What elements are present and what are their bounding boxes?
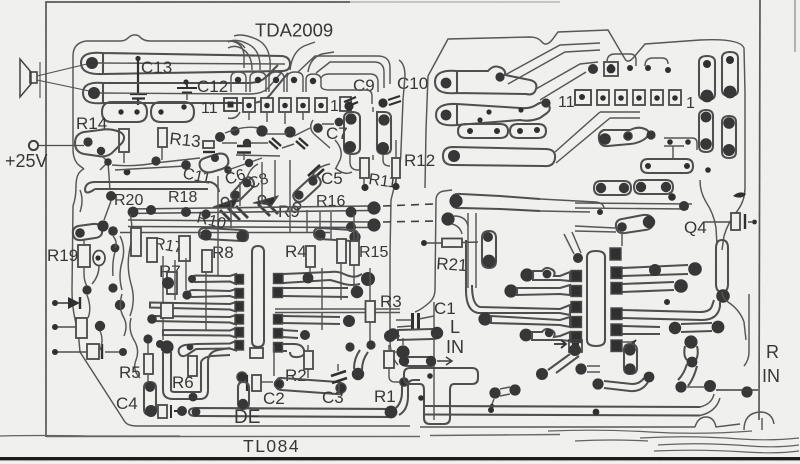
mid elbow stadium right [599,128,656,146]
capacitor C3 diagonal bars [331,371,347,383]
border frame right [759,0,760,420]
stadium left cluster [73,220,109,240]
resistor R14 body [119,129,129,152]
wire through cap bars [222,143,280,160]
pad under R3 [366,340,375,349]
dark pad cluster center 3 [284,126,295,137]
fan lines to C9 [298,56,345,73]
elbow stadium bottom [616,215,655,233]
pads pair lower right [669,321,725,335]
pad right low [384,330,396,342]
bottom black bar [0,457,800,460]
arrow shape 2 [253,196,278,205]
right pin squares row [597,90,681,105]
resistor R13 body [158,128,167,147]
finger L5 [520,329,582,343]
vertical stems to bus [218,160,320,232]
R3 wires [322,268,370,341]
stadium pads pair lower [458,124,508,138]
vertical stadium C10 comp [377,112,391,154]
pin square right of 1 [340,97,351,111]
C1 leads [396,316,434,327]
mid-left pads [82,285,91,294]
pin1 arrow right IC [554,340,566,348]
R21 resistor [421,239,478,248]
speaker LS [20,59,40,98]
pin square boxed right [575,90,591,105]
small cap symbol under R13 [203,141,215,152]
IC bar top pad [573,253,583,263]
pad right of cluster [245,159,253,167]
trace bus up to R1 [396,380,420,415]
vertical stadium R21 right [482,231,496,268]
slash hatch 2 [258,202,278,216]
dark pad cluster center [215,132,225,142]
pad left of R6 [160,340,173,353]
wire C7 down [335,140,341,168]
diode D row [52,297,80,309]
right board right edge lower [722,292,749,366]
resistor R3 body [366,301,376,322]
junction pad [104,158,112,166]
wires C6 C8 up [247,164,352,178]
right board outline [425,30,700,188]
hatch rings [221,197,228,204]
ring pad right [400,378,408,386]
vertical stadium C9 comp [344,112,360,154]
board edge left wavy [72,169,410,426]
wires under R14 [100,147,162,190]
C1 stadium below [387,327,443,340]
horizontal stadium pair row4 [594,181,631,195]
capacitor C1 bars [413,313,419,329]
wire C12 to pin [186,93,188,100]
terminal + capacitor bottom left [52,324,76,330]
teardrop blob [733,192,746,197]
R2 diagonal stadium [274,378,346,394]
pad C11 right [181,160,191,170]
elbow trace low [592,372,654,391]
pin square tails [228,112,303,124]
C2 vertical stadium [238,382,249,409]
capacitor bars mid [237,146,251,153]
resistor R17 bodies [131,228,141,256]
pad J curve [441,212,468,234]
fan arcs to pin tabs [228,35,334,72]
resistor R5 body [144,354,153,374]
pads beside rect [95,321,105,331]
R5 wire [147,343,149,382]
dark pad cluster center 2 [256,125,267,136]
bus pads row [128,201,381,242]
white rect component left [76,318,87,338]
R1 wires [389,345,400,382]
vertical stadium pad bottom [684,335,697,367]
capacitor C13 symbol + wire [130,61,147,105]
diagonal trace pads [536,344,581,380]
nested elbows top right [345,56,390,104]
bottom bus right board [424,394,720,416]
T trace right [664,138,697,158]
right fingers R1 [611,262,702,278]
R15 wires down [310,212,354,300]
resistor R8 body [202,250,212,272]
wire cluster links [225,127,310,170]
vertical trace below Q4 [716,240,728,292]
finger A right board [435,67,536,95]
T-shape big trace [404,368,478,424]
pads near oval [111,244,120,253]
inner tick corner [761,418,763,430]
stadium row3 A [102,102,147,122]
right fingers R2 [611,279,688,294]
border frame top faint right part [350,1,560,3]
Z diagonal traces [505,43,600,100]
finger 1 C13 trace [81,53,290,74]
finger L2 [504,284,581,297]
capacitor C lower left [52,344,127,359]
stadium row3 B [151,102,194,122]
right fingers R5 [611,340,636,352]
resistor R19 body [78,245,90,267]
C10 cap slashes [388,96,401,105]
dashed line upper [383,204,434,206]
Q4 capacitor [704,213,757,230]
long thin trace row5 [575,201,692,211]
ring pad C2 left [237,372,247,382]
corner pad Z trace [588,62,618,76]
top stadium R21 board [449,194,540,211]
capacitor C12 symbol [177,82,197,93]
top right corner elbows [607,54,671,73]
right fingers row B [273,286,363,298]
scan noise squiggles [0,430,799,453]
dashed line lower [383,221,434,222]
wire speaker to pad2 [37,80,94,92]
bus lines [120,206,370,233]
outline hump right [700,40,745,92]
right board left edge [415,190,452,420]
bottom edge right board [420,417,740,427]
image right edge tick [794,0,796,52]
capacitor C4 [158,405,187,418]
R6 elbow to finger [201,348,230,362]
border frame left+top [46,2,350,437]
long stadium with big pad [443,147,555,166]
elbow from 693 pad [675,364,716,393]
pad top [345,342,354,351]
capacitor C2 [247,375,273,391]
right fingers row E curl [274,343,305,358]
finger row 4 [147,314,243,324]
pad under R20 [108,226,118,236]
finger 2 trace [83,65,288,103]
bottom bus left [189,408,392,417]
dot pads scattered [705,167,711,173]
right fingers row C [274,315,356,328]
+25V terminal [29,141,38,150]
C6 diagonal stadium [231,177,254,201]
small pads row [477,107,523,122]
vertical wires through fingers [163,230,218,340]
R5 top pads [143,334,152,343]
dark pad cluster extra [230,126,239,135]
arrow shape 1 [213,198,238,208]
bus top trace [85,182,219,193]
vertical stadiums top right [699,56,715,102]
resistor R4 body [306,246,315,267]
finger row 1 [188,274,244,284]
board outline top-left with hump [73,35,245,169]
wire row to C11 [112,158,200,170]
slash hatch 1 [220,206,248,222]
IC bar TL084 right [587,251,605,346]
right fingers row D [274,329,311,341]
small ring pad [124,169,131,176]
right fingers R3 long J [611,289,730,320]
finger row 6 fork [179,341,244,357]
resistor R6 body [188,356,197,376]
C9 cap slashes [344,97,358,107]
wire top pad [564,232,581,254]
pad + stadium right [575,363,600,374]
R5 vertical stadium [144,382,157,417]
corner arc bottom right [744,412,774,430]
finger B right board [436,98,551,125]
C5 diagonal capacitor bars [308,165,324,180]
pad on C11 wire [151,156,160,165]
pad R20 top [106,191,116,201]
R6 U trace [163,352,208,401]
diagonal from long stadium [555,112,640,163]
R11 stem+dot [363,178,365,184]
big pad top right [396,345,409,358]
R IN pointer line [716,389,758,391]
scan noise texture [0,0,1,1]
resistor R2 body [304,351,313,369]
C9 top pad [344,101,353,110]
finger row 5 [163,328,244,338]
top trace T right [468,199,604,288]
finger L3 long L [466,240,582,315]
finger L4 [478,312,581,327]
wires left column [84,201,133,316]
small pads pair mid [489,384,520,408]
long trace mid [275,309,400,313]
R2 wires [274,345,308,378]
pin tab row upper [231,72,345,92]
pin1 boxed square [569,340,582,352]
wire +25V to board [39,145,85,147]
C11 loop trace [200,154,232,174]
resistor R15 bodies [337,239,346,263]
slash cap 1 [269,138,281,149]
R14 pad blob [75,129,124,156]
border frame bottom [46,435,560,437]
L IN stadium lower [399,356,452,366]
right board S edge [700,92,745,250]
big pad R7 [162,277,174,289]
small dot [664,299,670,305]
R12 stem+dot [395,140,397,183]
pad above C3 [352,368,364,380]
stadium R4 top [314,228,358,241]
right IC top right square [610,248,621,260]
pad bottom bus right end [385,406,398,419]
vertical pair stadium [624,344,637,375]
right fingers of left IC row A [274,272,376,286]
C3 wire [338,364,339,395]
left board right edge [390,60,405,365]
vertical stadium pair mid right [699,110,713,152]
slash cap 2 [296,138,308,149]
horizontal stadium row3 right [641,159,693,173]
pad right edge [741,386,752,397]
pin 11 boxed square [224,98,237,111]
wire up from pad [354,350,368,370]
resistor R7 body [167,272,177,294]
resistor R1 body [384,351,394,368]
C8 diagonal stadium [293,176,321,203]
wire bottom [575,226,622,246]
wire speaker to pad1 [37,63,91,76]
finger row 2 loop [182,289,243,300]
finger L1 right board [520,268,581,282]
white crossing box on bus [161,303,173,318]
wire stadium bottoms [350,107,390,170]
C10 top pad [378,98,387,107]
small oval right of R19 [93,251,105,266]
resistor R11 body [360,158,369,178]
finger row 3 [150,302,244,312]
pin squares row [243,98,327,112]
resistor R12 body [392,158,400,178]
IC bar TL084 left [252,246,264,347]
wire from pad [396,335,400,337]
right fingers R4 [611,324,660,336]
white rect top C2 [250,348,263,358]
stadium R8 top [199,228,248,242]
wire [394,338,403,352]
wires weaving lower left [87,294,140,378]
C7 pads [311,118,344,148]
